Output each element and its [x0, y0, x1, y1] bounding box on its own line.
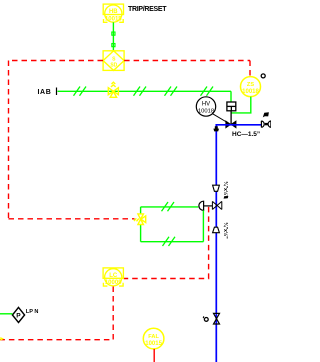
reducer 3/4x1/2 upper [213, 185, 220, 191]
valve HV-10018 body [226, 121, 236, 128]
wire: red dashed down to ZS circle [249, 61, 251, 77]
svg-text:LP N: LP N [26, 309, 39, 315]
wire: red dashed left vertical [8, 61, 10, 219]
svg-text:¾"x½": ¾"x½" [222, 222, 229, 239]
tubing loop right [202, 210, 204, 241]
wire: green to connector P [0, 313, 12, 315]
valve stem [230, 111, 232, 125]
off-page connector P [12, 307, 24, 322]
actuator link [204, 205, 213, 207]
svg-text:P: P [16, 313, 21, 320]
svg-text:IAB: IAB [38, 89, 52, 96]
solenoid transducer LV [134, 214, 146, 225]
line break tick [56, 88, 58, 96]
svg-text:HV: HV [202, 102, 210, 108]
wire: instrument air main green line [58, 90, 232, 92]
hose coupling at right [261, 121, 271, 128]
wire: green signal HB to interlock [112, 22, 114, 51]
label o near ZS [261, 74, 265, 78]
flow alarm FAL-10015 [143, 328, 164, 349]
svg-text:LC: LC [109, 273, 118, 279]
label 'o at hand valve [202, 316, 205, 318]
svg-text:¾"x½": ¾"x½" [222, 181, 229, 198]
tubing loop bottom [141, 241, 204, 243]
interlock logic box SD [103, 51, 124, 71]
svg-text:10018: 10018 [198, 109, 214, 115]
plug on riser [213, 126, 219, 131]
wire: red dashed to solenoid LV [9, 218, 135, 220]
tubing loop left lower [140, 225, 142, 242]
diaphragm actuator [199, 201, 204, 210]
svg-text:FAL: FAL [148, 334, 159, 340]
svg-text:10018: 10018 [242, 89, 259, 95]
break marks on air line [74, 87, 214, 96]
level controller LC-10009 [103, 268, 123, 286]
leader line tag to valve [213, 114, 227, 122]
node: connection square lower [112, 44, 115, 47]
svg-text:SD: SD [110, 62, 117, 68]
break marks loop top [162, 202, 175, 211]
svg-text:10015: 10015 [145, 341, 162, 347]
wire: green drop to actuator [230, 91, 232, 102]
control valve LV body [212, 201, 221, 209]
flag marker at valve [224, 196, 229, 199]
tubing loop left upper [140, 207, 142, 214]
break marks loop bottom [163, 237, 176, 246]
wire: red dashed interlock to ZS [124, 60, 250, 62]
expander 1/2x3/4 lower [213, 227, 220, 233]
node: connection square upper [112, 32, 115, 35]
hand valve on riser [214, 313, 220, 324]
wire: red dashed positioner to LC [124, 207, 209, 279]
tubing loop top [141, 206, 199, 208]
svg-text:10009: 10009 [105, 280, 122, 286]
valve actuator box [227, 102, 236, 111]
flag marker [263, 112, 269, 117]
svg-text:10015: 10015 [105, 16, 122, 22]
svg-text:TRIP/RESET: TRIP/RESET [128, 6, 167, 13]
hand switch HB-10015 [103, 4, 123, 22]
position switch ZS-10018 [241, 77, 261, 97]
svg-text:HB: HB [109, 9, 118, 15]
pipe: blue header HC-1.5" [216, 125, 261, 362]
wire: red dashed interlock to left margin [9, 60, 104, 62]
svg-text:HC—1.5”: HC—1.5” [232, 131, 260, 138]
wire: red dashed LC down [0, 287, 113, 340]
wire: red FAL stem [153, 349, 155, 362]
svg-text:ZS: ZS [247, 82, 254, 88]
arrow at margin [0, 337, 4, 341]
instrument tag HV-10018 [196, 97, 215, 116]
solenoid valve on air line [108, 82, 118, 97]
wire: green from ZS down [231, 97, 250, 113]
